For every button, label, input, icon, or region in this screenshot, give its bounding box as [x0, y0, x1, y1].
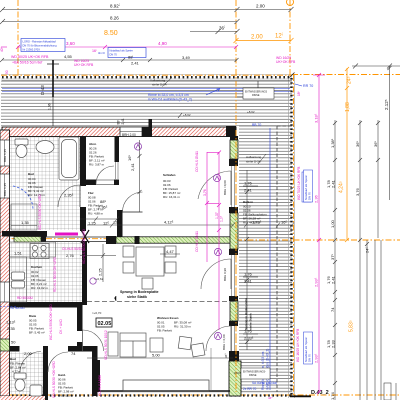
- Bad2 / Gard separating wall vertical: [43, 351, 48, 400]
- svg-text:Balkon: Balkon: [243, 200, 253, 204]
- svg-text:C0-HLS 50/31: C0-HLS 50/31: [62, 247, 82, 251]
- left exterior wall with red hatch: [0, 130, 10, 396]
- svg-text:WD-HLS 50/30 OK+URD: WD-HLS 50/30 OK+URD: [38, 194, 42, 230]
- kitchen sink: [12, 272, 25, 288]
- svg-text:02.05: 02.05: [98, 321, 112, 327]
- ventilation symbol Schlafen: [134, 143, 141, 150]
- pier: [229, 249, 238, 255]
- Flur room label: [88, 191, 104, 216]
- orange boundary overlay through right wall: [235, 130, 237, 392]
- svg-text:+BA 50/16 5cm tief: +BA 50/16 5cm tief: [12, 61, 42, 65]
- svg-text:50: 50: [5, 70, 9, 74]
- svg-text:CO-HLS 18/06: CO-HLS 18/06: [98, 375, 102, 396]
- svg-text:50: 50: [11, 340, 16, 345]
- svg-text:Rinne b=33,0 cm, t=3,5 cm: Rinne b=33,0 cm, t=3,5 cm: [148, 93, 189, 97]
- svg-text:86: 86: [83, 174, 87, 178]
- svg-text:12ⁱ: 12ⁱ: [275, 32, 283, 40]
- svg-text:CK + UKD: CK + UKD: [59, 319, 63, 334]
- Schlafen door swing: [123, 192, 143, 212]
- svg-text:2,00: 2,00: [24, 351, 33, 356]
- black dim line 4,55 / 2,41 / 3,49: [0, 58, 239, 62]
- svg-text:DN 70: DN 70: [308, 354, 312, 362]
- Bad2 room label: [10, 357, 26, 374]
- svg-text:SA 50/50 (-60,5a): SA 50/50 (-60,5a): [252, 381, 277, 385]
- svg-text:RR 70: RR 70: [303, 84, 313, 88]
- dim 2,25 rotated kitchen right: [80, 244, 116, 282]
- svg-text:3,18⁵: 3,18⁵: [314, 113, 319, 123]
- svg-text:BRH 1,35: BRH 1,35: [3, 183, 7, 196]
- Sprung dashed line across living room: [87, 301, 236, 303]
- balcony door swing Wohnen 2: [206, 326, 231, 351]
- svg-text:2,41: 2,41: [244, 279, 253, 284]
- svg-text:88⁵: 88⁵: [100, 199, 106, 204]
- svg-text:74: 74: [330, 307, 335, 312]
- svg-text:2,41: 2,41: [131, 61, 140, 66]
- svg-text:BF: 5,45 m²: BF: 5,45 m²: [29, 331, 45, 335]
- svg-text:16⁵: 16⁵: [127, 155, 132, 161]
- svg-text:BRH ±0,00: BRH ±0,00: [223, 180, 227, 195]
- svg-text:+8,62: +8,62: [247, 110, 255, 114]
- svg-text:3m hl: 3m hl: [98, 51, 105, 55]
- pier: [229, 296, 238, 301]
- Entwaesserungsrinne box bottom: [234, 368, 270, 379]
- svg-text:1,35: 1,35: [21, 220, 30, 225]
- svg-text:2,41: 2,41: [130, 162, 135, 171]
- black chain x378: [376, 120, 380, 238]
- big green window bottom right: [229, 361, 241, 396]
- svg-text:8.26: 8.26: [110, 16, 119, 21]
- svg-text:1,38⁵: 1,38⁵: [330, 138, 335, 148]
- Diele room label: [29, 314, 45, 335]
- svg-text:FB: Parkett: FB: Parkett: [157, 329, 172, 333]
- green window mid: [230, 213, 238, 249]
- kitchen counter top run: [10, 242, 56, 257]
- Kochen / Diele horizontal wall: [10, 302, 83, 308]
- window opening in top wall: [120, 127, 142, 137]
- magenta chain x319: [313, 73, 325, 394]
- black chain x360: [358, 120, 362, 400]
- balcony dim chain vertical: [245, 170, 249, 350]
- dim 5,00 living: [87, 357, 233, 359]
- svg-text:2x RR 70: 2x RR 70: [243, 387, 257, 391]
- svg-text:Aufkantung: Aufkantung: [246, 155, 262, 159]
- svg-text:18⁵: 18⁵: [297, 90, 301, 96]
- svg-text:+8,62: +8,62: [183, 113, 191, 117]
- tiled floor Kochen: [10, 242, 82, 302]
- Bad/Abst to Kochen horizontal wall with green lintel: [2, 230, 108, 243]
- svg-text:RINNE: RINNE: [249, 374, 257, 377]
- downpipe mark above pier: [149, 119, 153, 127]
- svg-text:Bad: Bad: [28, 172, 34, 176]
- svg-text:2,41: 2,41: [244, 188, 253, 193]
- orange boundary horizontal mid balcony y240: [236, 239, 400, 241]
- dim 36-5: [190, 29, 240, 34]
- right exterior wall segments and windows: [229, 136, 241, 396]
- svg-text:siehe Statik: siehe Statik: [127, 295, 147, 299]
- Diele door to Bad2 swing: [20, 352, 41, 373]
- living room bottom window band: [93, 360, 230, 392]
- svg-text:DN 70: DN 70: [308, 192, 312, 200]
- Schlafen vertical dim line: [138, 140, 142, 212]
- magenta lintel bar: [55, 233, 78, 236]
- ventilation symbol bottom window: [214, 332, 221, 339]
- Gard right wall vertical: [92, 346, 98, 396]
- black chain x335: [333, 120, 337, 400]
- orange grid bubble top right: [287, 0, 294, 6]
- svg-text:1,96: 1,96: [48, 103, 52, 110]
- svg-text:4,90: 4,90: [158, 41, 167, 46]
- svg-text:8.92ⁱ: 8.92ⁱ: [110, 3, 120, 9]
- svg-text:siehe D-34: siehe D-34: [152, 83, 167, 87]
- svg-text:24⁵: 24⁵: [365, 247, 370, 253]
- svg-text:2,36: 2,36: [314, 194, 319, 203]
- svg-text:4,55: 4,55: [64, 54, 73, 59]
- svg-text:2.12⁵: 2.12⁵: [384, 99, 389, 110]
- Schlafen / Wohnen separating wall with green lintel: [106, 236, 231, 244]
- orange boundary vertical mid x236: [235, 0, 237, 392]
- magenta dims near Schlafen right: [205, 151, 221, 331]
- Aufkantung edge line top: [2, 80, 292, 82]
- svg-text:36⁵: 36⁵: [224, 353, 228, 358]
- svg-text:Sprung in Bodenplatte: Sprung in Bodenplatte: [244, 298, 248, 330]
- ventilation symbol kitchen: [90, 278, 96, 284]
- svg-text:5,83⁵: 5,83⁵: [349, 320, 355, 332]
- svg-text:4,12⁵: 4,12⁵: [164, 220, 174, 225]
- svg-text:DN 70 für Bitumenabdichtung: DN 70 für Bitumenabdichtung: [23, 44, 58, 48]
- orange boundary vertical along parapet: [293, 75, 295, 395]
- svg-text:4,47: 4,47: [166, 249, 175, 254]
- svg-text:RU: 4,88 m: RU: 4,88 m: [88, 212, 104, 216]
- svg-text:1,37: 1,37: [215, 212, 219, 219]
- svg-text:Kochen: Kochen: [31, 265, 42, 269]
- svg-text:Nr 21360.070X: Nr 21360.070X: [23, 48, 41, 52]
- svg-text:VD-HLS 50/30 OK+URD: VD-HLS 50/30 OK+URD: [82, 228, 86, 264]
- Bad room label: [28, 172, 45, 197]
- orange dim line 2.00 / 12-5 right: [234, 38, 294, 43]
- Flur/Schlafen wall to green band: [117, 210, 123, 238]
- ventilation symbol balcony door 1: [213, 174, 220, 181]
- dim 4,12 line above green wall: [87, 223, 235, 228]
- tiled floor Bad2 bottom-left: [10, 352, 44, 398]
- green window Schlafen: [230, 140, 238, 159]
- kitchen counter left run: [10, 257, 27, 302]
- svg-text:70: 70: [83, 144, 87, 148]
- svg-text:74: 74: [71, 351, 76, 356]
- attika dotted band right: [290, 78, 292, 396]
- svg-text:1,74: 1,74: [330, 391, 335, 400]
- svg-text:RU: 6,91 m: RU: 6,91 m: [58, 394, 74, 398]
- svg-text:1,73⁵: 1,73⁵: [252, 220, 262, 225]
- interior wall right of Abst (vertical): [115, 136, 120, 162]
- living coffee table: [150, 338, 163, 352]
- balcony door swing Wohnen: [201, 259, 231, 289]
- svg-text:UK+OK RFB: UK+OK RFB: [276, 60, 296, 64]
- attika dotted band top: [2, 76, 292, 78]
- svg-text:in Wü-Cd ausbilden (D-43_2): in Wü-Cd ausbilden (D-43_2): [148, 98, 192, 102]
- unit number 02.05: [96, 318, 112, 327]
- dining chairs: [123, 246, 176, 289]
- Wohnen Essen room label: [157, 316, 191, 333]
- roof overhang dashed line vertical: [276, 126, 278, 392]
- plain vertical lines right bottom: [374, 240, 376, 400]
- Bad1 shower tray: [11, 204, 37, 230]
- top exterior wall with red insulation hatch: [2, 118, 236, 137]
- svg-text:WD 16/25 UK+OK RFB: WD 16/25 UK+OK RFB: [296, 329, 300, 362]
- pier: [229, 207, 238, 213]
- svg-text:BRH 1,35: BRH 1,35: [3, 149, 7, 162]
- svg-text:2,36⁵: 2,36⁵: [98, 205, 108, 210]
- living sideboard: [108, 332, 118, 356]
- svg-text:RU: 3,87 m: RU: 3,87 m: [89, 163, 105, 167]
- svg-text:Gard.: Gard.: [58, 373, 66, 377]
- svg-text:2,41: 2,41: [331, 179, 336, 188]
- svg-text:WO 70/25 UK+OK RFB: WO 70/25 UK+OK RFB: [297, 167, 301, 200]
- svg-text:2,33: 2,33: [331, 339, 336, 348]
- Diele door to Gard swing: [48, 352, 68, 372]
- svg-text:RU: 12,74 m: RU: 12,74 m: [28, 193, 45, 197]
- svg-text:2,76: 2,76: [66, 253, 75, 258]
- svg-text:D-43: D-43: [40, 85, 45, 95]
- svg-text:2,25: 2,25: [98, 267, 103, 276]
- svg-text:CO HLS GN11: CO HLS GN11: [195, 231, 199, 252]
- Bad1 toilet: [15, 139, 28, 158]
- svg-text:36ⁱ: 36ⁱ: [219, 25, 225, 31]
- svg-text:1,0⁵: 1,0⁵: [220, 215, 224, 222]
- living sofa: [120, 333, 146, 357]
- wall junction X mark: [81, 230, 89, 243]
- green window left wall bottom: [0, 339, 10, 351]
- svg-text:VO-HLS 50/30 +OK+ÜRD: VO-HLS 50/30 +OK+ÜRD: [52, 360, 56, 398]
- bottom right step detail: [384, 383, 396, 400]
- ventilation symbol balcony door 2: [214, 248, 221, 255]
- corner block top: [230, 136, 238, 140]
- magenta dim line 3,60 / 4,90: [16, 45, 238, 49]
- svg-text:3,76: 3,76: [355, 187, 360, 196]
- Schlafen room label: [163, 173, 180, 199]
- dim 4,47 at table: [160, 253, 180, 255]
- svg-text:2,35: 2,35: [7, 326, 16, 331]
- D.43_2 section line bottom: [290, 395, 311, 397]
- svg-text:BB 70: BB 70: [252, 123, 261, 127]
- svg-text:BRH ± 0,00: BRH ± 0,00: [222, 334, 226, 350]
- tiled floor Bad top-left: [9, 137, 81, 230]
- living armchairs: [178, 336, 205, 357]
- balcony door Schlafen (opening): [231, 166, 233, 207]
- dim line 8.26: [0, 19, 240, 24]
- svg-text:siehe Statik: siehe Statik: [249, 313, 253, 330]
- svg-text:1,51: 1,51: [14, 251, 23, 256]
- svg-text:1,00: 1,00: [330, 219, 335, 228]
- dim line 8.92: [0, 7, 240, 12]
- svg-text:Bad: Bad: [10, 357, 16, 361]
- svg-text:8.50: 8.50: [104, 30, 118, 37]
- Kochen room label: [31, 265, 48, 290]
- svg-text:4,77m: 4,77m: [12, 370, 21, 374]
- gutter blue line right terrace: [269, 128, 271, 390]
- svg-text:3,60: 3,60: [66, 41, 75, 46]
- Balkon room label: [243, 200, 267, 225]
- blue leader arrow to gutter: [206, 89, 220, 96]
- kitchen stove 4 plates: [30, 244, 49, 259]
- svg-text:2,41: 2,41: [121, 118, 125, 124]
- svg-text:1,76: 1,76: [244, 181, 253, 186]
- right parapet grey edge lines: [288, 75, 290, 398]
- attika dotted band bottom: [12, 394, 292, 396]
- svg-text:WC-HLS 55/30 OK+URD: WC-HLS 55/30 OK+URD: [49, 304, 53, 340]
- Bad1 door swing: [58, 185, 80, 207]
- orange boundary horizontal bottom: [10, 394, 400, 396]
- terrace decking right band (Balkon): [239, 126, 292, 394]
- sill extension line: [210, 348, 212, 391]
- svg-text:5,00: 5,00: [152, 353, 161, 358]
- Bad1 shower glass door (blue dashed arc): [13, 186, 33, 209]
- orange boundary horizontal top right: [292, 74, 400, 76]
- svg-text:≈+6,70: ≈+6,70: [92, 311, 102, 315]
- window opening left wall kitchen: [0, 282, 10, 302]
- svg-text:≈+6,62: ≈+6,62: [94, 277, 104, 281]
- bottom-left wall red hatch to bottom: [0, 396, 45, 400]
- Gard room label: [58, 373, 74, 398]
- Diele bottom wall with door openings: [10, 346, 98, 352]
- svg-text:LORO - Rainstar Attikaablauf: LORO - Rainstar Attikaablauf: [23, 40, 57, 44]
- svg-text:3,49: 3,49: [182, 55, 191, 60]
- svg-text:1,76: 1,76: [244, 272, 253, 277]
- svg-text:Abst.: Abst.: [89, 142, 97, 146]
- window opening left wall 1: [0, 140, 10, 166]
- svg-text:1,13⁵: 1,13⁵: [6, 320, 16, 325]
- svg-text:WD 50/25 UK+OK RFB: WD 50/25 UK+OK RFB: [11, 55, 49, 59]
- Bad2 washbasin: [30, 385, 42, 396]
- svg-text:Schlafen: Schlafen: [163, 173, 176, 177]
- top wall right end black cap: [226, 126, 236, 137]
- Diele right wall vertical: [77, 302, 83, 331]
- svg-text:Diele: Diele: [29, 314, 37, 318]
- balcony door swing Schlafen: [198, 171, 231, 199]
- svg-text:44⁵: 44⁵: [268, 396, 273, 400]
- Notablauf annotation box: [98, 48, 146, 58]
- bottom parapet grey line: [100, 391, 294, 393]
- svg-text:2.00: 2.00: [256, 4, 265, 9]
- Abst room label: [89, 142, 105, 167]
- green window Wohnen: [230, 301, 238, 321]
- svg-text:36⁵: 36⁵: [373, 141, 378, 147]
- svg-text:Notablauf als Speier: Notablauf als Speier: [110, 49, 133, 53]
- window opening left wall 2: [0, 174, 10, 198]
- svg-text:88ⁱ: 88ⁱ: [128, 54, 133, 60]
- balcony door Wohnen (opening): [231, 255, 233, 296]
- Bad1 bathtub: [59, 137, 79, 180]
- balcony top edge line: [239, 125, 292, 127]
- svg-text:1,88: 1,88: [345, 102, 351, 112]
- pier between sill and partition: [41, 236, 46, 242]
- Abst door swing: [96, 166, 114, 184]
- kitchen-living separating wall vertical x82: [82, 241, 87, 305]
- top right small dim line: [352, 64, 400, 69]
- pier: [229, 351, 239, 361]
- svg-text:RU: 31,30 m: RU: 31,30 m: [174, 325, 191, 329]
- svg-text:VO-HLS 50/31 10/12: VO-HLS 50/31 10/12: [104, 330, 108, 360]
- svg-text:CO HLS GN11: CO HLS GN11: [195, 151, 199, 172]
- interior wall between Bad and Abst (vertical): [80, 136, 86, 186]
- LORO annotation box: [21, 39, 65, 52]
- svg-text:BRH 2.00: BRH 2.00: [122, 133, 136, 137]
- top parapet grey edge lines: [1, 74, 292, 76]
- svg-text:RU: 13,02 m: RU: 13,02 m: [31, 286, 48, 290]
- svg-text:Wohnen Essen: Wohnen Essen: [157, 316, 179, 320]
- svg-text:2,41: 2,41: [331, 275, 336, 284]
- Entwaesserungsrinne box right terrace: [237, 81, 274, 99]
- orange boundary vertical x290: [289, 0, 291, 75]
- svg-text:RU: 16,31 m: RU: 16,31 m: [163, 195, 180, 199]
- dim line 2.00 top right: [237, 7, 294, 12]
- svg-text:RD 50/30Ü: RD 50/30Ü: [17, 296, 33, 300]
- orange chain x347: [345, 67, 349, 242]
- svg-text:UK+OK RFB: UK+OK RFB: [74, 63, 94, 67]
- green lintel band left (kitchen window sill): [14, 237, 41, 243]
- svg-text:2,33⁵: 2,33⁵: [244, 336, 254, 341]
- svg-text:2,93⁵: 2,93⁵: [314, 277, 319, 287]
- Bad1 washbasin: [36, 141, 54, 154]
- section marker D-43 top: [40, 60, 59, 126]
- svg-text:Flur: Flur: [88, 191, 94, 195]
- svg-text:2,93⁵: 2,93⁵: [314, 353, 319, 363]
- svg-text:4,24⁵: 4,24⁵: [339, 181, 345, 193]
- bottom sill rect living room: [123, 380, 209, 391]
- window opening: [231, 326, 233, 351]
- pier: [229, 321, 238, 326]
- orange boundary horizontal left y238.7: [0, 238, 117, 240]
- svg-text:RINNE: RINNE: [252, 94, 260, 97]
- svg-text:BRH 0,90: BRH 0,90: [223, 268, 227, 281]
- pier: [229, 159, 238, 166]
- Bad2 toilet: [14, 373, 26, 391]
- svg-text:12⁵: 12⁵: [103, 221, 109, 226]
- svg-text:88⁵: 88⁵: [117, 119, 121, 125]
- black chain x389 (2.12): [388, 66, 392, 200]
- svg-text:2,0⁵: 2,0⁵: [83, 157, 87, 162]
- Abst door opening lines: [96, 179, 114, 181]
- roof overhang dashed line horizontal: [277, 125, 294, 127]
- svg-text:37⁵: 37⁵: [330, 254, 335, 260]
- orange boundary horizontal top terrace: [1, 74, 292, 76]
- Bad door opening + wall below: [80, 207, 86, 231]
- corner tick at parapet top: [290, 73, 295, 78]
- svg-text:Sprung in Bodenplatte: Sprung in Bodenplatte: [120, 290, 159, 294]
- svg-text:2.00: 2.00: [251, 35, 263, 41]
- opening lines below Abst wall: [115, 162, 117, 179]
- svg-text:RD-HLS 50/30 OK+URD: RD-HLS 50/30 OK+URD: [53, 256, 57, 292]
- svg-text:24⁵: 24⁵: [347, 76, 353, 84]
- glass partition kitchen top: [46, 236, 108, 238]
- gutter blue lines in top terrace: [2, 88, 290, 90]
- black chain x367 lower: [365, 240, 369, 400]
- svg-text:36⁵: 36⁵: [355, 141, 360, 147]
- terrace decking top band: [1, 79, 292, 126]
- Abst/Flur horizontal wall: [82, 180, 119, 186]
- black pier right of window: [142, 127, 152, 138]
- svg-text:3,76: 3,76: [203, 189, 207, 196]
- svg-text:DN 70: DN 70: [110, 53, 118, 57]
- svg-text:16⁵: 16⁵: [281, 220, 287, 225]
- Diele to Wohnen door swing: [83, 330, 104, 351]
- svg-text:2,35⁵: 2,35⁵: [64, 193, 74, 198]
- svg-text:1,25: 1,25: [88, 221, 97, 226]
- dining table: [136, 247, 164, 276]
